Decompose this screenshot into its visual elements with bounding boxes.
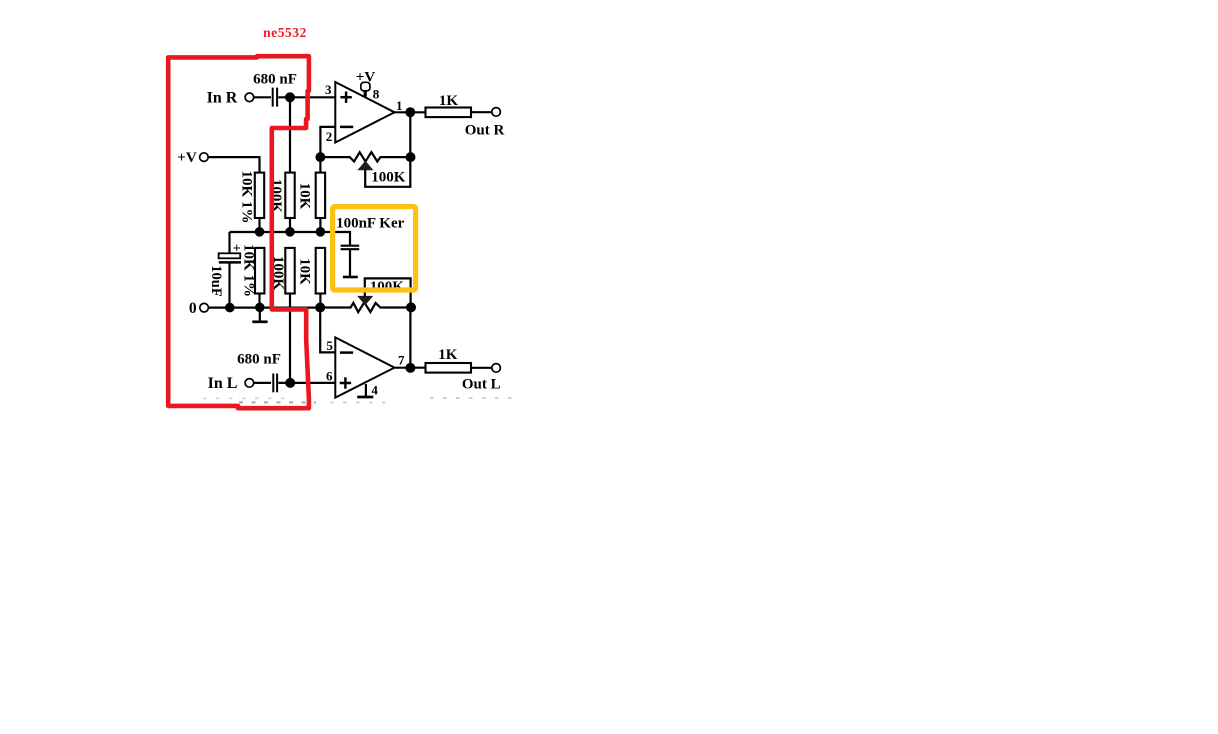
node bus junction 1 xyxy=(255,227,265,237)
wire ground bus xyxy=(209,307,321,309)
pin 8 supply bubble xyxy=(361,82,370,91)
wire feedback up from output L xyxy=(409,308,411,368)
node ground bus junction a xyxy=(225,303,235,313)
svg-text:2: 2 xyxy=(326,129,333,144)
svg-text:+: + xyxy=(233,241,241,256)
wire bus to 100nF xyxy=(349,232,350,245)
wire op-amp output xyxy=(395,111,426,113)
potentiometer R1 100K zigzag xyxy=(320,152,410,161)
svg-text:10K: 10K xyxy=(297,258,313,285)
svg-text:10K 1%: 10K 1% xyxy=(240,244,256,297)
node bus junction 2 xyxy=(285,227,295,237)
capacitor C3 10uF plus plate xyxy=(219,253,241,258)
wire C1 to op-amp pin3 xyxy=(278,96,335,98)
pot L wiper arrow xyxy=(357,296,373,305)
svg-text:1: 1 xyxy=(396,98,403,113)
wire 1K to Out R xyxy=(471,111,492,113)
op-amp U1B plus input mark xyxy=(340,377,351,388)
node +V terminal xyxy=(200,153,209,162)
node junction In L xyxy=(285,378,295,388)
pot R wiper wire xyxy=(365,158,410,187)
pot R wiper arrow xyxy=(357,161,373,171)
wire 10uF to ground bus xyxy=(228,264,230,308)
yellow annotation box xyxy=(333,207,416,290)
resistor 1K (out L) xyxy=(426,363,472,373)
node bus junction 3 xyxy=(316,227,326,237)
op-amp U1A xyxy=(335,82,394,143)
wire +V to R top xyxy=(208,157,259,173)
wire bus down to 10uF xyxy=(228,232,230,254)
svg-text:Out L: Out L xyxy=(462,377,501,393)
node junction In R xyxy=(285,92,295,102)
svg-text:1K: 1K xyxy=(438,347,458,363)
wire pin5 xyxy=(320,308,335,353)
svg-text:100K: 100K xyxy=(370,279,405,295)
resistor 1K (R out R) xyxy=(426,108,472,118)
svg-text:680 nF: 680 nF xyxy=(253,72,297,88)
resistor 10K 1% (upper) xyxy=(255,173,264,218)
wire 100K lower down to In L junction xyxy=(289,294,291,383)
node output L junction xyxy=(405,363,415,373)
capacitor C5 100nF xyxy=(341,246,360,250)
pin 4 stub and ground xyxy=(365,384,367,397)
wire In R junction down to 100K xyxy=(289,97,291,173)
svg-text:100K: 100K xyxy=(371,170,406,186)
wire 100nF to bar xyxy=(349,250,351,276)
node pot L right junction xyxy=(406,302,416,312)
svg-text:0: 0 xyxy=(189,300,197,317)
resistor 10K (upper) xyxy=(316,173,325,218)
wire feedback down from output xyxy=(409,112,411,157)
wire op-amp L output xyxy=(395,367,426,369)
node output R junction xyxy=(405,107,415,117)
wire 1K to Out L xyxy=(471,367,492,369)
potentiometer L 100K zigzag xyxy=(320,302,411,312)
svg-text:7: 7 xyxy=(398,353,405,368)
svg-text:10K: 10K xyxy=(297,183,313,210)
wire pin6 from In L xyxy=(278,382,335,384)
svg-text:8: 8 xyxy=(373,86,380,101)
svg-text:3: 3 xyxy=(325,82,332,97)
op-amp U1A plus input mark xyxy=(340,92,351,103)
svg-text:6: 6 xyxy=(326,369,333,384)
wire mid reference bus xyxy=(230,231,351,233)
pin 2 wire xyxy=(320,127,335,157)
wire In L to C2 xyxy=(254,382,271,384)
node pot R left junction xyxy=(315,152,325,162)
op-amp U1A minus input mark xyxy=(340,126,353,129)
node In L terminal xyxy=(245,379,254,388)
svg-text:10K 1%: 10K 1% xyxy=(239,171,255,224)
wire resistor bottoms to bus xyxy=(260,218,321,232)
node ground bus junction b xyxy=(255,303,265,313)
svg-text:680 nF: 680 nF xyxy=(237,352,281,368)
op-amp U1B minus input mark xyxy=(340,351,353,354)
capacitor C2 680nF xyxy=(273,374,277,393)
svg-text:100nF Ker: 100nF Ker xyxy=(336,216,405,232)
node pot R right junction xyxy=(406,152,416,162)
resistor 100K (lower) xyxy=(285,248,294,294)
svg-text:ne5532: ne5532 xyxy=(263,25,307,40)
svg-text:10uF: 10uF xyxy=(208,265,224,297)
node Out L terminal xyxy=(492,364,501,373)
svg-text:5: 5 xyxy=(326,338,333,353)
node Out R terminal xyxy=(492,108,501,117)
resistor 100K (upper) xyxy=(285,173,294,218)
artifact dashes row xyxy=(203,398,519,403)
node In R terminal xyxy=(245,93,254,102)
svg-text:4: 4 xyxy=(371,382,378,397)
ground symbol xyxy=(259,308,261,322)
resistor 10K (lower) xyxy=(316,248,325,294)
resistor 10K 1% (lower) xyxy=(255,248,264,294)
svg-text:In L: In L xyxy=(208,375,238,392)
capacitor C1 680nF xyxy=(273,88,277,107)
svg-text:+V: +V xyxy=(177,150,197,166)
node pot L left junction xyxy=(315,303,325,313)
red annotation outline xyxy=(168,56,309,408)
op-amp U1B xyxy=(335,337,394,397)
wire pot junction down to 10K xyxy=(319,157,321,173)
ground bar of 100nF xyxy=(343,276,358,279)
svg-text:1K: 1K xyxy=(439,93,459,109)
wire In R to C1 xyxy=(254,96,271,98)
svg-text:In R: In R xyxy=(207,90,238,107)
svg-text:Out R: Out R xyxy=(465,122,505,138)
pot L wiper wire xyxy=(365,278,411,306)
capacitor C3 minus plate xyxy=(219,261,241,264)
wire resistors to ground bus xyxy=(260,294,321,308)
node 0V terminal xyxy=(200,303,209,312)
pin 8 stub xyxy=(364,91,367,97)
